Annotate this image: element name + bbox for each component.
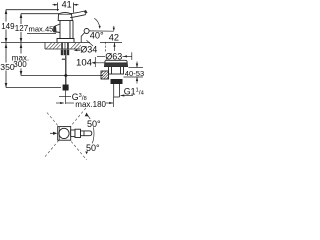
svg-text:350: 350 [0, 62, 15, 72]
svg-text:50°: 50° [86, 143, 100, 153]
svg-text:41: 41 [62, 0, 72, 10]
svg-text:300: 300 [13, 60, 27, 69]
svg-text:149: 149 [1, 22, 15, 31]
svg-text:104: 104 [76, 57, 93, 68]
svg-text:max.180: max.180 [75, 100, 106, 109]
svg-text:Ø34: Ø34 [80, 45, 97, 55]
svg-text:42: 42 [109, 33, 119, 43]
svg-text:40-53: 40-53 [125, 69, 144, 78]
svg-text:Ø63: Ø63 [105, 52, 122, 62]
svg-text:50°: 50° [87, 119, 101, 129]
svg-text:max.45: max.45 [29, 25, 54, 34]
svg-text:40°: 40° [90, 31, 104, 41]
svg-text:127: 127 [15, 24, 29, 33]
